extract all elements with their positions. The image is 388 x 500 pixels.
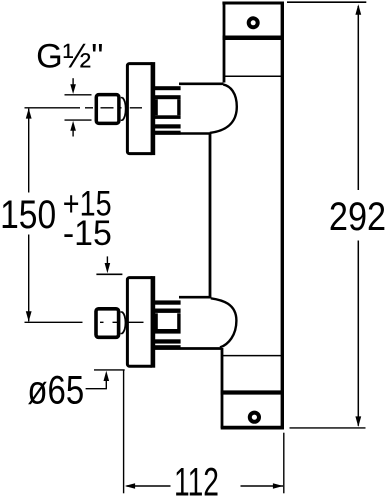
dia65 leader arrow up: [104, 371, 110, 381]
upper centerline: [25, 107, 143, 109]
lower boss curve: [211, 298, 237, 347]
top screw: [249, 18, 258, 27]
lower neck: [121, 312, 123, 334]
top cover joint thick line: [223, 36, 285, 41]
112 arrow left: [125, 483, 135, 489]
top block left edge: [223, 2, 226, 83]
G half ext line bottom: [65, 119, 92, 121]
body top edge: [222, 2, 284, 5]
292 arrow down: [355, 416, 361, 427]
bottom block thin line: [223, 355, 282, 357]
body right edge: [281, 2, 284, 429]
292 top ext line: [287, 1, 366, 3]
body bottom edge: [221, 426, 284, 430]
112 left ext line: [123, 370, 125, 493]
flange dia ext line top: [96, 273, 122, 275]
upper inlet top line: [179, 83, 223, 86]
bottom screw: [250, 413, 259, 422]
112 arrow right: [273, 483, 283, 489]
flange dia ext line bottom: [94, 369, 125, 371]
svg-text:ø65: ø65: [27, 368, 84, 413]
svg-text:G½": G½": [36, 37, 103, 75]
G half arrow down: [72, 78, 74, 85]
upper knurl band 1: [155, 86, 181, 90]
lower knurl band 4: [155, 339, 181, 343]
112 right ext line: [283, 433, 285, 494]
292 bottom ext line: [290, 427, 366, 429]
lower inlet bottom line: [153, 347, 221, 350]
upper boss curve: [210, 84, 237, 132]
lower knurl band 2: [155, 309, 181, 313]
svg-text:112: 112: [174, 461, 219, 500]
middle body left edge: [209, 133, 212, 297]
flange dia arrow down: [106, 256, 108, 263]
lower knurl bottom band: [154, 345, 181, 349]
lower knurl band 1: [155, 300, 181, 304]
upper knurl band 4: [155, 124, 181, 128]
lower flange: [127, 278, 153, 367]
112 dim line: [127, 485, 284, 487]
svg-text:150: 150: [0, 192, 56, 236]
bottom block left edge: [221, 348, 224, 428]
upper flange right shadow edge: [151, 62, 156, 155]
lower G half nut: [96, 309, 119, 338]
upper knurl bottom band: [154, 131, 181, 135]
150 arrow up: [26, 108, 32, 118]
upper flange: [127, 64, 153, 154]
lower inlet top line: [179, 296, 211, 299]
lower knurl middle edges: [155, 313, 158, 329]
top block thin line: [224, 75, 282, 77]
lower knurl band 3: [155, 329, 181, 334]
G half arrow up: [72, 130, 74, 137]
upper knurl band 3: [155, 115, 181, 119]
150 arrow down: [26, 311, 32, 321]
292 dim line: [357, 6, 359, 426]
upper neck: [121, 98, 123, 121]
upper knurl middle edges: [155, 99, 158, 115]
upper G half nut: [96, 95, 119, 124]
upper inlet bottom line: [153, 132, 210, 135]
G half ext line top: [65, 94, 92, 96]
150 dim line: [28, 109, 30, 322]
upper knurl band 2: [155, 95, 181, 99]
svg-text:292: 292: [329, 193, 386, 238]
292 arrow up: [355, 4, 361, 15]
svg-text:-15: -15: [63, 215, 112, 254]
bottom cover joint thick line: [221, 390, 284, 394]
lower centerline: [25, 321, 144, 323]
lower flange right shadow edge: [151, 276, 156, 368]
